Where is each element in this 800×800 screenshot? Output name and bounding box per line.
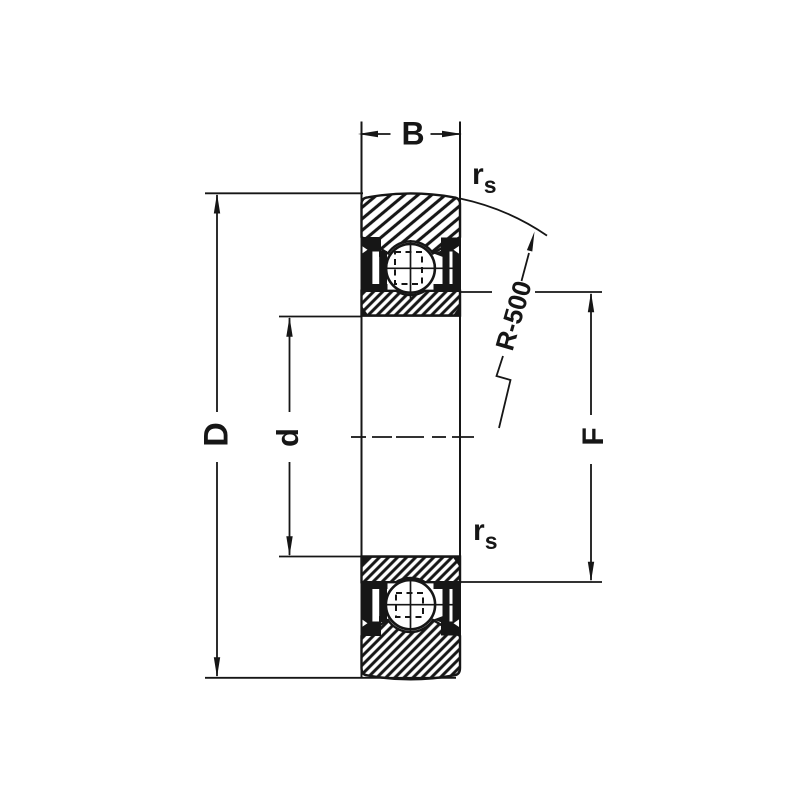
svg-text:D: D [198,422,236,447]
svg-text:d: d [270,428,305,447]
svg-text:F: F [577,427,610,445]
svg-text:B: B [401,116,424,152]
